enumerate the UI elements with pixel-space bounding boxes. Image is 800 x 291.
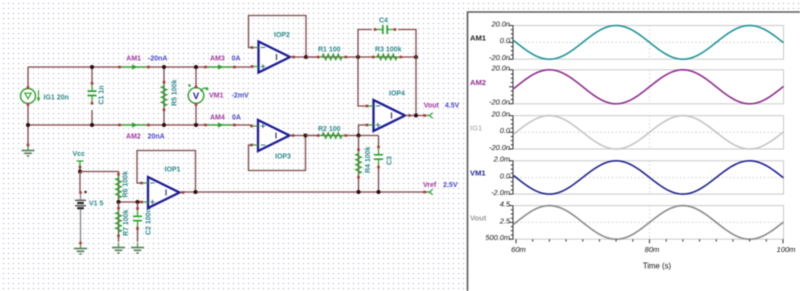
svg-text:0.0: 0.0 xyxy=(500,171,511,180)
svg-text:R7 100k: R7 100k xyxy=(123,209,130,236)
subplot AM1 y-axis xyxy=(509,26,513,60)
node R5 bottom xyxy=(162,123,166,127)
svg-text:-20nA: -20nA xyxy=(148,56,167,63)
terminal Vout xyxy=(423,114,426,117)
ammeter AM3 arrow xyxy=(207,64,233,69)
svg-text:-2mV: -2mV xyxy=(232,93,249,100)
wire divider node row xyxy=(119,201,143,203)
svg-text:R1 100: R1 100 xyxy=(318,47,341,54)
ammeter AM2 arrow xyxy=(121,122,147,127)
node IOP4 output xyxy=(414,114,418,118)
wire IOP4 plus input from R2/R4 node xyxy=(359,125,368,136)
svg-text:2.5: 2.5 xyxy=(499,216,511,225)
svg-text:20nA: 20nA xyxy=(148,134,165,141)
trace Vout xyxy=(514,206,784,240)
node: rail2 / IG1 / ground junction xyxy=(26,123,30,127)
trace IG1 xyxy=(514,116,784,149)
svg-text:AM2: AM2 xyxy=(126,134,141,141)
subplot IG1 frame xyxy=(513,116,784,149)
svg-text:IG1: IG1 xyxy=(470,123,483,132)
subplot IG1 y-axis xyxy=(509,116,513,149)
svg-text:Vcc: Vcc xyxy=(73,151,86,158)
terminal Vref xyxy=(423,191,426,194)
waveform panel background xyxy=(468,12,800,291)
wire IOP3 feedback loop xyxy=(249,136,306,171)
ground below C2 xyxy=(131,243,144,253)
battery V1 xyxy=(79,191,82,194)
wire: IG1 top lead riser xyxy=(27,67,29,89)
svg-text:AM4: AM4 xyxy=(210,115,225,122)
node R2/R4/C3/IOP4+ junction xyxy=(357,134,361,138)
wire Vcc junction down to battery xyxy=(79,172,81,193)
svg-text:IOP4: IOP4 xyxy=(389,91,405,98)
subplot Vout y-axis xyxy=(509,206,513,240)
capacitor C2 xyxy=(137,202,139,210)
svg-text:R4 100k: R4 100k xyxy=(365,146,372,173)
svg-text:R6 100k: R6 100k xyxy=(123,171,130,198)
svg-text:V1 5: V1 5 xyxy=(89,201,104,208)
node IOP1 output junction xyxy=(194,190,198,194)
node R1/R3/C4 junction xyxy=(356,55,360,59)
wire: IG1 bottom lead to rail xyxy=(27,104,29,126)
trace AM2 xyxy=(514,70,784,104)
op-amp IOP1 xyxy=(148,177,180,208)
svg-text:0A: 0A xyxy=(232,56,241,63)
svg-text:100m: 100m xyxy=(777,245,796,254)
trace VM1 xyxy=(514,161,784,194)
wire VM1 bottom lead xyxy=(195,104,197,126)
svg-text:Time (s): Time (s) xyxy=(643,262,672,271)
op-amp IOP2 xyxy=(259,42,291,73)
resistor R2 xyxy=(306,135,359,137)
svg-text:R5 100k: R5 100k xyxy=(172,79,179,106)
node IOP3 output junction xyxy=(304,134,308,138)
subplot VM1 y-axis xyxy=(509,161,513,194)
ammeter AM4 arrow xyxy=(207,122,233,127)
op-amp IOP4 xyxy=(374,100,406,131)
svg-text:20.0n: 20.0n xyxy=(491,64,511,73)
node Vcc junction xyxy=(78,170,82,174)
wire IOP2 output xyxy=(290,56,316,58)
svg-text:0A: 0A xyxy=(232,115,241,122)
svg-text:20.0n: 20.0n xyxy=(491,110,511,119)
subplot AM2 y-axis xyxy=(509,70,513,104)
resistor R6 xyxy=(118,174,120,202)
svg-text:80m: 80m xyxy=(645,245,660,254)
subplot Vout frame xyxy=(513,206,784,240)
svg-text:-20.0n: -20.0n xyxy=(489,143,510,152)
svg-text:R2 100: R2 100 xyxy=(318,126,341,133)
node R3/C4/feedback junction xyxy=(414,55,418,59)
subplot AM1 frame xyxy=(513,26,784,60)
node R4 bottom xyxy=(357,190,361,194)
svg-text:-2.0m: -2.0m xyxy=(491,188,510,197)
node R5 top xyxy=(162,65,166,69)
svg-text:AM2: AM2 xyxy=(470,78,486,87)
wire Vcc junction to R6 xyxy=(80,172,119,175)
capacitor C4 xyxy=(376,25,394,34)
resistor R5 xyxy=(163,67,165,125)
resistor R7 xyxy=(118,202,120,242)
wire IOP1 output to Vref rail xyxy=(180,191,431,193)
wire Vcc to junction xyxy=(79,167,81,172)
node R6/R7 junction xyxy=(117,200,121,204)
wire C4 loop right xyxy=(398,30,416,58)
node VM1 bottom xyxy=(194,123,198,127)
ground below IG1 xyxy=(27,125,29,145)
node C1 top xyxy=(90,65,94,69)
svg-text:IOP2: IOP2 xyxy=(274,32,290,39)
svg-text:Vout: Vout xyxy=(424,103,440,110)
svg-text:VM1: VM1 xyxy=(470,169,486,178)
svg-text:60m: 60m xyxy=(511,245,526,254)
wire R2 node to C3 xyxy=(359,135,379,137)
node IOP2 output junction xyxy=(304,55,308,59)
wire: bottom rail AM2/AM4 row xyxy=(28,124,252,126)
wire: top rail AM1/AM3 row xyxy=(28,66,253,68)
svg-text:500.0m: 500.0m xyxy=(485,233,510,242)
resistor R3 xyxy=(358,56,416,58)
wire VM1 top lead xyxy=(195,67,197,88)
subplot VM1 zero gridline xyxy=(513,176,784,178)
subplot IG1 80m gridline xyxy=(649,116,651,149)
wire IOP3 output xyxy=(290,135,317,137)
subplot Vout zero gridline xyxy=(513,221,784,223)
capacitor C3 xyxy=(378,136,380,147)
svg-text:0.0: 0.0 xyxy=(500,126,511,135)
node C1 bottom xyxy=(90,123,94,127)
trace AM1 xyxy=(514,26,784,60)
svg-text:Vref: Vref xyxy=(423,182,437,189)
resistor R1 xyxy=(306,56,358,58)
wire IOP4 output and feedback riser xyxy=(405,115,427,117)
svg-text:C3: C3 xyxy=(387,156,394,165)
subplot Vout 80m gridline xyxy=(649,206,651,240)
ground below V1 xyxy=(79,242,82,245)
ammeter AM1 arrow xyxy=(121,64,147,69)
svg-text:V: V xyxy=(193,91,200,102)
wire IOP1 feedback loop xyxy=(137,151,196,193)
svg-text:Vout: Vout xyxy=(470,213,487,222)
wire IOP2 feedback loop xyxy=(249,16,307,58)
x axis ticks xyxy=(516,239,783,243)
svg-text:AM3: AM3 xyxy=(210,56,225,63)
svg-text:IG1 20n: IG1 20n xyxy=(44,95,69,102)
node VM1 top xyxy=(194,65,198,69)
svg-text:-20.0n: -20.0n xyxy=(489,53,510,62)
subplot AM1 80m gridline xyxy=(649,26,651,60)
svg-text:C1 1n: C1 1n xyxy=(99,85,106,104)
node C3 bottom xyxy=(377,190,381,194)
ground below R7 xyxy=(112,243,125,253)
svg-text:IOP1: IOP1 xyxy=(165,167,181,174)
subplot AM2 80m gridline xyxy=(649,70,651,104)
svg-text:4.5: 4.5 xyxy=(500,200,511,209)
svg-text:-20.0n: -20.0n xyxy=(489,98,510,107)
voltmeter VM1 xyxy=(188,84,209,103)
svg-text:AM1: AM1 xyxy=(470,33,487,42)
subplot AM2 frame xyxy=(513,70,784,104)
subplot AM1 zero gridline xyxy=(513,41,784,43)
wire IOP4 minus input from R1/R3 node xyxy=(358,57,368,106)
svg-text:2.5V: 2.5V xyxy=(443,182,458,189)
svg-text:R3 100k: R3 100k xyxy=(375,47,402,54)
wire C4 loop left xyxy=(358,30,372,58)
resistor R4 xyxy=(358,136,360,192)
svg-text:VM1: VM1 xyxy=(209,93,224,100)
capacitor C1 xyxy=(91,67,93,82)
svg-text:C4: C4 xyxy=(379,18,388,25)
svg-text:AM1: AM1 xyxy=(126,56,141,63)
node C2 junction xyxy=(136,200,140,204)
terminal Vcc xyxy=(77,161,84,166)
subplot VM1 80m gridline xyxy=(649,161,651,194)
svg-text:C2 100n: C2 100n xyxy=(146,208,153,235)
svg-text:20.0n: 20.0n xyxy=(491,19,511,28)
current source IG1 xyxy=(21,89,41,104)
svg-text:IOP3: IOP3 xyxy=(275,154,291,161)
subplot IG1 zero gridline xyxy=(513,131,784,133)
svg-text:0.0: 0.0 xyxy=(500,36,511,45)
subplot VM1 frame xyxy=(513,161,784,194)
svg-text:4.5V: 4.5V xyxy=(445,103,460,110)
svg-text:2.0m: 2.0m xyxy=(493,155,510,164)
op-amp IOP3 xyxy=(258,120,290,151)
